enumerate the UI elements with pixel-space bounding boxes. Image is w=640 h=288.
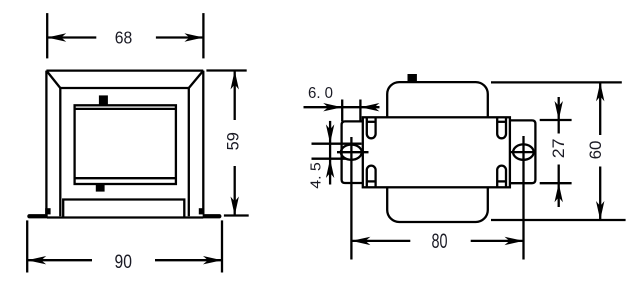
top view: slot top-right chord [497, 121, 506, 123]
front view: outer cover right edge [202, 71, 204, 215]
top view: coil body terminal tab [408, 74, 417, 82]
dimension 90: dimension line left segment [27, 259, 92, 261]
dimension 90: arrowhead left [27, 256, 46, 264]
top view: screw hole left slot line [337, 151, 369, 153]
front view: inner frame right edge [188, 88, 190, 216]
top view: screw hole right slot line [510, 151, 537, 153]
dimension 80: extension line right through hole center [522, 136, 524, 260]
front view: bracket lip left [45, 208, 50, 214]
dimension 68: arrowhead left [47, 33, 66, 41]
dimension 59: extension line bottom [224, 214, 249, 216]
top view: slot top-right [497, 117, 506, 138]
dimension 60: extension line top [491, 81, 622, 83]
front view: cover skirt edge [63, 200, 184, 218]
dimension 27: dimension line lower segment [558, 165, 560, 208]
dimension 90: extension line right [221, 220, 223, 272]
svg-text:59: 59 [224, 132, 243, 150]
dimension 4.5: extension line lower [312, 158, 347, 160]
dimension 68: dimension line right segment [156, 36, 204, 38]
front view: mounting foot left [27, 214, 47, 218]
dimension 68: extension line left [46, 13, 48, 58]
svg-text:27: 27 [549, 139, 568, 159]
top view: mounting ear left [342, 121, 363, 183]
front view: base line [47, 216, 203, 218]
top view: slot bottom-left [367, 166, 376, 188]
dimension 60: dimension line bottom segment [599, 167, 601, 221]
dimension 60: arrowhead down [596, 201, 604, 220]
dimension 80: extension line left through hole center [350, 137, 352, 260]
svg-text:68: 68 [115, 28, 133, 48]
dimension 4.5: extension line upper [312, 143, 362, 145]
dimension 6.0: extension line right [359, 100, 361, 121]
top view: screw hole right [513, 144, 534, 159]
dimension 6.0: dimension line [304, 106, 380, 108]
dimension 68: extension line right [202, 13, 204, 58]
front view: bevel diagonal top-left [46, 71, 60, 88]
dimension 68: dimension line left segment [47, 36, 96, 38]
dimension 59: arrowhead up [231, 71, 239, 90]
dimension 6.0: arrowhead pointing left [360, 103, 379, 111]
front view: bobbin flange line bottom [75, 177, 176, 179]
dimension 27: arrowhead down [555, 101, 563, 120]
top view: slot bottom-left chord [367, 180, 376, 182]
dimension 6.0: arrowhead pointing right [323, 103, 342, 111]
top view: slot bottom-right [497, 166, 506, 188]
dimension 27: dimension line upper segment [558, 97, 560, 134]
dimension 4.5: arrowhead up [326, 159, 334, 178]
front view: top terminal tab [99, 95, 108, 104]
dimension 80: arrowhead left [351, 237, 370, 245]
dimension 27: extension line upper [540, 119, 572, 121]
front view: outer cover left edge [45, 71, 47, 215]
front view: bobbin window outline [75, 105, 176, 184]
top view: mounting ear right [510, 120, 536, 183]
front view: bracket lip right [199, 208, 204, 214]
front view: bobbin flange line top [75, 108, 176, 110]
dimension 90: extension line left [26, 220, 28, 272]
front view: mounting foot right [203, 214, 222, 218]
dimension 80: dimension line left segment [351, 240, 410, 242]
top view: slot bottom-right chord [497, 180, 506, 182]
dimension 60: arrowhead up [596, 82, 604, 101]
front view: inner frame left edge [59, 88, 61, 216]
svg-text:4. 5: 4. 5 [308, 162, 324, 189]
svg-text:60: 60 [586, 141, 605, 160]
dimension 59: dimension line top segment [234, 71, 236, 121]
top view: lamination plate outline [363, 117, 510, 187]
dimension 60: extension line bottom [491, 219, 626, 221]
front view: bevel diagonal top-right [189, 71, 204, 88]
dimension 4.5: arrowhead down [326, 124, 334, 143]
svg-text:90: 90 [115, 251, 133, 273]
top view: slot top-left chord [367, 121, 376, 123]
dimension 59: extension line top [206, 69, 246, 71]
dimension 6.0: extension line left [341, 100, 343, 122]
dimension 27: extension line lower [540, 182, 572, 184]
dimension 90: dimension line right segment [155, 259, 222, 261]
dimension 59: dimension line bottom segment [234, 166, 236, 216]
svg-text:6. 0: 6. 0 [308, 85, 333, 102]
svg-text:80: 80 [432, 230, 448, 253]
dimension 4.5: dimension line [329, 121, 331, 185]
front view: outer cover top edge [46, 69, 203, 71]
dimension 90: arrowhead right [203, 256, 222, 264]
top view: screw hole left [341, 145, 362, 160]
top view: slot top-left [367, 117, 376, 138]
dimension 60: dimension line top segment [599, 82, 601, 135]
dimension 27: arrowhead up [555, 183, 563, 202]
dimension 80: dimension line right segment [471, 240, 524, 242]
front view: inner frame top edge [60, 87, 189, 89]
front view: bottom terminal tab [96, 184, 105, 192]
dimension 80: arrowhead right [505, 237, 524, 245]
dimension 68: arrowhead right [184, 33, 203, 41]
dimension 59: arrowhead down [231, 197, 239, 216]
top view: coil body outline [387, 82, 488, 222]
